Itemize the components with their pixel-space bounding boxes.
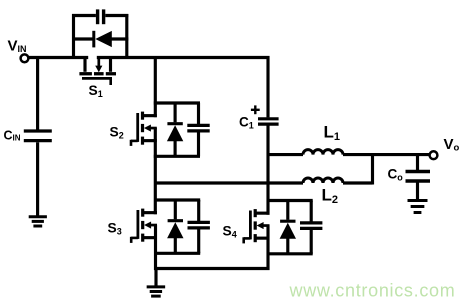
inductor L2 xyxy=(303,178,343,183)
wire SW1 to L2 xyxy=(155,181,303,184)
terminal Vo output node xyxy=(430,151,438,159)
wire node A rail (S1 source to C1 top) xyxy=(97,56,270,59)
capacitor S4 parallel capacitor xyxy=(300,201,322,254)
wire S4 source to bottom rail xyxy=(266,225,269,270)
wire S1 loop left side xyxy=(72,14,75,59)
capacitor S3 parallel capacitor xyxy=(188,200,210,253)
wire S3 snubber loop bottom xyxy=(154,252,200,255)
wire S2 snubber loop top xyxy=(154,101,200,104)
svg-text:www.cntronics.com: www.cntronics.com xyxy=(289,281,456,301)
capacitor S1 parallel capacitor xyxy=(72,9,128,24)
wire S1 loop right side xyxy=(125,14,128,59)
wire ground stem xyxy=(154,269,157,287)
diode S2 body diode xyxy=(167,103,183,156)
wire node B: C1 bottom to S4 drain, L1 tap xyxy=(266,126,269,215)
diode S3 body diode xyxy=(167,200,183,253)
capacitor S2 parallel capacitor xyxy=(187,103,209,156)
transistor S2 N-MOSFET xyxy=(131,112,157,146)
transistor S1 MOSFET (horizontal) xyxy=(79,56,116,85)
diode S4 body diode xyxy=(280,201,296,254)
wire L2 join vertical xyxy=(371,153,374,184)
ground GND main xyxy=(147,285,166,288)
diode S1 body diode (points left) xyxy=(72,31,128,48)
wire node B to L1 xyxy=(268,153,303,156)
wire CIN branch lower xyxy=(36,142,39,216)
wire L2 to output join xyxy=(343,181,373,184)
ground GND at CIN xyxy=(29,215,47,218)
wire S4 snubber loop bottom xyxy=(267,252,313,255)
wire S2 snubber loop bottom xyxy=(154,155,200,158)
wire S4 snubber loop top xyxy=(267,199,313,202)
wire bottom ground rail xyxy=(154,267,270,270)
wire VIN rail left segment (VIN to S1 drain) xyxy=(28,56,88,59)
wire L1 to Vo terminal xyxy=(343,153,429,156)
capacitor C1 (polarized) xyxy=(258,119,279,124)
wire node A down to C1 xyxy=(266,56,269,117)
ground GND at Co xyxy=(408,199,428,202)
capacitor Co xyxy=(406,172,431,182)
wire output to Co xyxy=(416,155,419,170)
wire Co to ground xyxy=(416,183,419,201)
capacitor CIN xyxy=(24,131,52,141)
transistor S3 N-MOSFET xyxy=(131,209,157,243)
wire S3 snubber loop top xyxy=(154,198,200,201)
label C1 plus sign xyxy=(251,105,260,114)
wire SW1 net: S2 source down to S3 drain xyxy=(154,128,157,214)
inductor L1 xyxy=(303,150,343,155)
wire GND net: S3 source to bottom rail xyxy=(154,225,157,270)
wire CIN branch upper xyxy=(36,56,39,130)
wire node A drop to S2 drain xyxy=(154,56,157,117)
transistor S4 N-MOSFET xyxy=(244,209,270,243)
terminal VIN input node xyxy=(21,54,29,62)
